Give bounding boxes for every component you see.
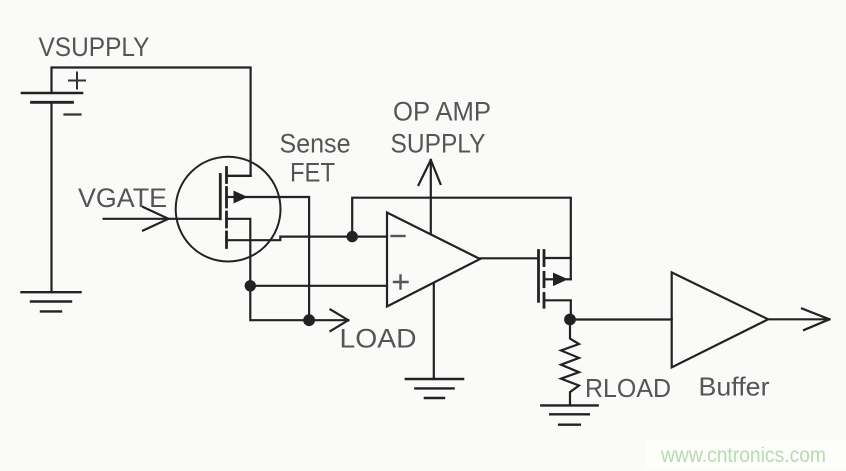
op-amp U1 minus symbol xyxy=(392,235,405,237)
transistor Q1 gate bar xyxy=(219,175,222,219)
transistor Q2 drain tap xyxy=(544,257,571,259)
watermark band xyxy=(646,441,846,469)
ground GND3 xyxy=(541,405,597,424)
svg-text:LOAD: LOAD xyxy=(340,324,417,354)
node B junction dot (non-inverting input) xyxy=(245,280,256,291)
wire VGATE input with arrow xyxy=(104,207,221,231)
wire sense tap to load node xyxy=(243,197,309,320)
op-amp U1 xyxy=(387,213,480,307)
transistor Q2 body arrow xyxy=(544,278,554,280)
wire node A to Q2 drain xyxy=(352,198,571,280)
svg-text:VGATE: VGATE xyxy=(78,183,167,213)
wire buffer output arrow xyxy=(768,309,829,331)
buffer U2 xyxy=(672,272,768,367)
wire inverting input xyxy=(352,236,387,238)
svg-text:VSUPPLY: VSUPPLY xyxy=(39,32,150,62)
node A junction dot (inverting input) xyxy=(347,231,358,242)
transistor Q2 gate bar xyxy=(537,251,540,302)
wire non-inverting input xyxy=(250,285,387,287)
wire battery to ground xyxy=(50,102,52,292)
svg-text:www.cntronics.com: www.cntronics.com xyxy=(660,444,826,467)
svg-text:SUPPLY: SUPPLY xyxy=(391,129,486,159)
battery V1 positive plate xyxy=(22,92,82,95)
transistor Q1 kelvin tap xyxy=(227,237,353,241)
wire op-amp output to Q2 gate xyxy=(480,257,539,259)
svg-text:FET: FET xyxy=(290,158,335,188)
ground GND1 xyxy=(22,292,81,311)
wire output node to buffer xyxy=(570,318,672,320)
node C junction dot (load node) xyxy=(303,314,315,326)
transistor Q2 source tap xyxy=(544,300,571,319)
transistor Q2 channel segments xyxy=(543,251,546,308)
wire LOAD arrow xyxy=(309,310,348,332)
battery V1 negative plate xyxy=(32,101,73,104)
svg-text:Sense: Sense xyxy=(280,129,351,159)
op-amp U1 plus symbol xyxy=(394,276,408,289)
transistor Q1 source tap xyxy=(227,219,310,320)
battery plus sign xyxy=(69,73,85,89)
wire VSUPPLY top rail xyxy=(52,68,251,176)
ground GND2 xyxy=(406,379,463,398)
svg-text:RLOAD: RLOAD xyxy=(585,373,671,403)
svg-text:Buffer: Buffer xyxy=(699,372,770,402)
transistor Q1 sense tap arrow xyxy=(227,196,235,198)
transistor Q1 drain tap to VSUPPLY xyxy=(227,175,251,177)
battery minus sign xyxy=(65,113,81,115)
node D junction dot (output node) xyxy=(564,314,576,326)
wire op-amp to ground xyxy=(433,283,435,379)
transistor Q1 channel (dashed) xyxy=(225,168,228,248)
transistor Q1 sense FET circle xyxy=(176,157,281,262)
svg-text:OP AMP: OP AMP xyxy=(393,97,491,127)
wire op-amp supply arrow xyxy=(419,160,441,234)
resistor RLOAD xyxy=(561,320,579,406)
